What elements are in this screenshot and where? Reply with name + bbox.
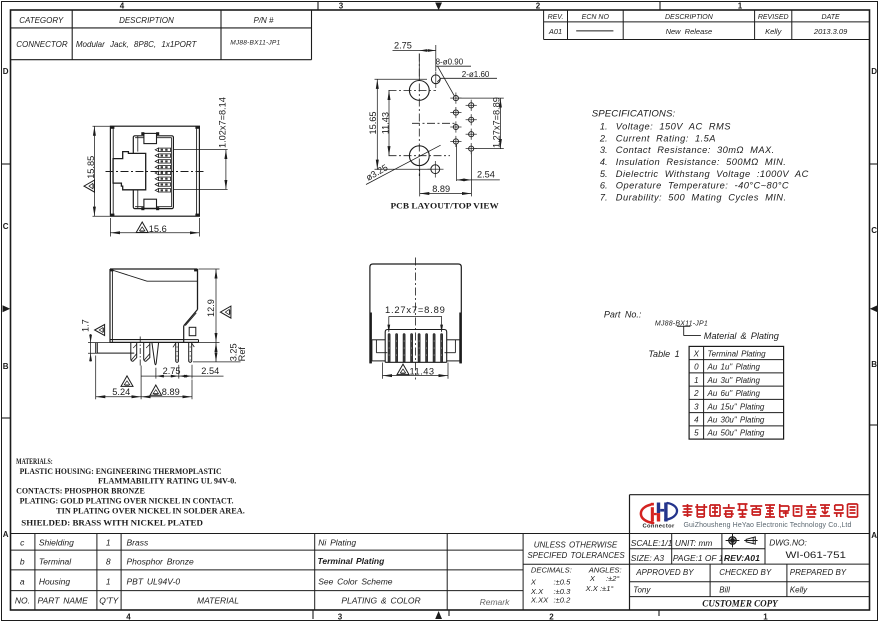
parts header row <box>15 596 421 606</box>
front view bottom polarity tab <box>141 199 159 210</box>
svg-text:0: 0 <box>694 363 699 372</box>
svg-text:Au 50u" Plating: Au 50u" Plating <box>707 429 765 438</box>
svg-text:2013.3.09: 2013.3.09 <box>813 27 848 36</box>
svg-text:2: 2 <box>536 2 541 11</box>
svg-text:1: 1 <box>763 613 768 622</box>
svg-text:2: 2 <box>549 613 554 622</box>
rear view vertical centerline <box>415 258 417 380</box>
svg-text:8-ø0.90: 8-ø0.90 <box>436 58 464 67</box>
rear view 8 terminal pins <box>388 334 443 363</box>
svg-text:Brass: Brass <box>127 538 149 548</box>
parts list table <box>11 534 630 611</box>
svg-text:See Color Scheme: See Color Scheme <box>318 577 393 587</box>
projection symbol <box>726 534 758 548</box>
svg-text:A: A <box>871 531 877 540</box>
dimension 2.75 hole offset <box>393 40 436 79</box>
front view latch profile <box>113 152 146 190</box>
svg-text:CONNECTOR: CONNECTOR <box>16 40 68 49</box>
svg-text:3.: 3. <box>600 145 608 155</box>
label 2-o1.60 leader <box>437 70 497 82</box>
rear view right wing <box>445 340 460 361</box>
svg-text:Table 1: Table 1 <box>648 349 679 359</box>
svg-text:Voltage: 150V AC RMS: Voltage: 150V AC RMS <box>616 122 731 132</box>
svg-text:5.: 5. <box>600 169 608 179</box>
dimension 1.02x7=8.14 contact pitch <box>174 97 228 189</box>
front view horizontal centerline <box>106 171 205 173</box>
svg-text:SCALE:1/1: SCALE:1/1 <box>631 538 672 548</box>
svg-text:5: 5 <box>694 429 699 438</box>
svg-text:New Release: New Release <box>666 27 713 36</box>
company logo HY mark <box>641 503 677 524</box>
svg-text:REV.: REV. <box>548 14 564 21</box>
svg-text:15.65: 15.65 <box>368 112 378 135</box>
svg-text::±0.2: :±0.2 <box>554 595 572 604</box>
pcb vertical centerline <box>418 54 420 177</box>
svg-text:DESCRIPTION: DESCRIPTION <box>665 14 714 21</box>
svg-text:Connector: Connector <box>643 524 676 530</box>
front view outer shield square <box>110 126 199 216</box>
svg-text:APPROVED BY: APPROVED BY <box>635 568 694 577</box>
svg-text:12.9: 12.9 <box>206 299 216 317</box>
category title table <box>11 10 312 60</box>
svg-text:1.7: 1.7 <box>80 319 90 332</box>
svg-text:Operature Temperature: -40°C: Operature Temperature: -40°C~80°C <box>616 181 789 191</box>
tolerance decimals <box>530 566 572 605</box>
svg-text:1.27x7=8.89: 1.27x7=8.89 <box>492 97 502 148</box>
svg-text:3: 3 <box>694 402 699 411</box>
dimension 5.24 side <box>96 356 141 400</box>
svg-text:Terminal Plating: Terminal Plating <box>318 556 386 566</box>
svg-text:4: 4 <box>120 2 125 11</box>
svg-text:Current Rating: 1.5A: Current Rating: 1.5A <box>616 133 716 143</box>
materials notes <box>16 457 245 528</box>
side view rear fin <box>184 310 199 343</box>
svg-text:X: X <box>589 574 596 583</box>
svg-text:SPECIFICATIONS:: SPECIFICATIONS: <box>592 108 676 119</box>
svg-text:D: D <box>3 67 9 76</box>
svg-text:8: 8 <box>106 556 111 566</box>
parts row b Terminal <box>20 556 385 567</box>
svg-text:2.: 2. <box>599 133 608 143</box>
svg-text:PLASTIC HOUSING: ENGINEERING: PLASTIC HOUSING: ENGINEERING THERMOPLAST… <box>20 467 222 476</box>
zone numbers top <box>120 2 743 11</box>
svg-text:Q'TY: Q'TY <box>99 596 119 606</box>
svg-text:Bill: Bill <box>719 586 730 595</box>
svg-text:PCB LAYOUT/TOP VIEW: PCB LAYOUT/TOP VIEW <box>391 201 500 210</box>
svg-text:WI-061-751: WI-061-751 <box>786 550 847 560</box>
dimension 8.89 pcb <box>420 167 472 197</box>
revision table <box>544 10 870 40</box>
side view leg centerline <box>139 337 141 367</box>
svg-text:SHIELDED: BRASS WITH NICKEL: SHIELDED: BRASS WITH NICKEL PLATED <box>21 519 203 528</box>
value ECN dash <box>576 30 613 32</box>
svg-text:Tony: Tony <box>633 586 651 595</box>
svg-text:Terminal: Terminal <box>39 556 72 566</box>
svg-text:PART NAME: PART NAME <box>38 596 89 606</box>
svg-text:8.89: 8.89 <box>162 387 180 397</box>
svg-text:2: 2 <box>693 389 699 398</box>
svg-text:4: 4 <box>126 613 131 622</box>
svg-text:4.: 4. <box>600 157 608 167</box>
side view solder pin 2 <box>189 342 195 362</box>
svg-text:3: 3 <box>338 613 343 622</box>
title block outline <box>630 495 870 610</box>
svg-text:Kelly: Kelly <box>765 27 783 36</box>
svg-text:Modular Jack, 8P8C, 1x1PORT: Modular Jack, 8P8C, 1x1PORT <box>76 40 198 49</box>
svg-text:UNIT: mm: UNIT: mm <box>675 538 713 548</box>
svg-text:REV:A01: REV:A01 <box>724 553 760 563</box>
rear view body outline <box>370 264 461 363</box>
svg-text:FLAMMABILITY RATING UL 94V-: FLAMMABILITY RATING UL 94V-0. <box>98 476 236 485</box>
svg-text:a: a <box>20 577 25 587</box>
label 8-o0.90 leader <box>436 58 471 96</box>
dimension 8.89 side <box>141 380 192 400</box>
tolerance angles <box>585 566 622 593</box>
side view shield tab <box>96 342 135 353</box>
svg-text:CATEGORY: CATEGORY <box>19 16 64 25</box>
svg-text:SPECIFED TOLERANCES: SPECIFED TOLERANCES <box>527 551 625 560</box>
table 1 rows text <box>693 349 766 437</box>
svg-text:DWG.NO:: DWG.NO: <box>769 538 807 548</box>
svg-text:TIN PLATING OVER NICKEL IN: TIN PLATING OVER NICKEL IN SOLDER AREA. <box>56 506 245 515</box>
pcb signal holes <box>450 93 477 155</box>
svg-text:REVISED: REVISED <box>758 14 789 21</box>
svg-text:Ni Plating: Ni Plating <box>318 538 356 548</box>
dimension 2.54 pcb <box>457 144 500 196</box>
zone letters left <box>3 67 9 539</box>
svg-text:D: D <box>871 67 877 76</box>
svg-text:6.: 6. <box>600 181 608 191</box>
svg-text:MATERIAL: MATERIAL <box>197 596 239 606</box>
svg-text:11.43: 11.43 <box>410 366 435 376</box>
part number leader line <box>677 326 701 335</box>
svg-text:1: 1 <box>738 2 743 11</box>
svg-text:C: C <box>3 222 9 231</box>
dimension 15.6 front width <box>110 218 199 237</box>
svg-text:CUSTOMER COPY: CUSTOMER COPY <box>702 599 778 610</box>
svg-text::±0.5: :±0.5 <box>554 577 572 586</box>
svg-text:15.6: 15.6 <box>149 224 167 234</box>
svg-text:15.85: 15.85 <box>86 156 96 179</box>
side view solder pin 1 <box>173 342 179 362</box>
svg-text:Insulation Resistance: 500MΩ: Insulation Resistance: 500MΩ MIN. <box>616 157 787 167</box>
svg-text::±2°: :±2° <box>606 574 620 583</box>
svg-text:4: 4 <box>694 416 699 425</box>
svg-text:DECIMALS:: DECIMALS: <box>531 566 572 575</box>
svg-text:Kelly: Kelly <box>790 586 808 595</box>
svg-text:2.54: 2.54 <box>201 366 219 376</box>
svg-text:PREPARED BY: PREPARED BY <box>790 568 847 577</box>
side view center peg <box>152 342 159 364</box>
dimension 12.9 side <box>199 269 231 342</box>
parts row a Housing <box>20 577 393 587</box>
dimension 1.27x7=8.89 rear <box>385 304 446 332</box>
svg-text:1: 1 <box>106 577 111 587</box>
dimension 11.43 pcb <box>380 90 390 155</box>
svg-text:A: A <box>3 530 9 539</box>
tolerance block lines <box>523 563 629 565</box>
svg-text:PBT UL94V-0: PBT UL94V-0 <box>127 577 181 587</box>
svg-text:1.02x7=8.14: 1.02x7=8.14 <box>217 97 227 148</box>
centering arrow right <box>870 305 878 312</box>
svg-text:C: C <box>871 226 877 235</box>
front view top polarity tab <box>141 132 159 143</box>
pcb mounting hole bottom <box>389 146 451 166</box>
svg-text:CONTACTS: PHOSPHOR BRONZE: CONTACTS: PHOSPHOR BRONZE <box>16 487 145 496</box>
svg-text:2-ø1.60: 2-ø1.60 <box>462 70 490 79</box>
svg-text:Dielectric Withstang Voltage: Dielectric Withstang Voltage :1000V AC <box>616 169 809 179</box>
parts row c Shielding <box>20 538 356 548</box>
dimension 15.85 front height <box>84 126 110 216</box>
dimension 2.54 side <box>179 365 224 379</box>
centering arrow left <box>3 305 11 312</box>
svg-text:CHECKED BY: CHECKED BY <box>719 568 772 577</box>
svg-text:B: B <box>871 360 877 369</box>
rear view pin housing <box>385 330 447 363</box>
svg-text:1.: 1. <box>600 122 608 132</box>
svg-text:DESCRIPTION: DESCRIPTION <box>119 16 174 25</box>
pcb middle centerline <box>412 122 456 124</box>
svg-text:B: B <box>3 362 9 371</box>
rear view left wing <box>372 340 387 361</box>
svg-text:7.: 7. <box>600 192 608 202</box>
svg-text:Contact Resistance: 30mΩ MAX: Contact Resistance: 30mΩ MAX. <box>616 145 775 155</box>
side view hook leg 2 <box>144 342 150 361</box>
svg-text:1: 1 <box>694 376 698 385</box>
svg-text:Au 30u" Plating: Au 30u" Plating <box>707 416 765 425</box>
svg-text:X: X <box>530 577 537 586</box>
dimension 1.27x7=8.89 pcb <box>459 97 504 148</box>
svg-text:Shielding: Shielding <box>39 538 74 548</box>
svg-text:A01: A01 <box>548 27 562 36</box>
dimension 3.25 Ref side <box>193 342 247 362</box>
svg-text:b: b <box>20 556 25 566</box>
svg-text:Phosphor Bronze: Phosphor Bronze <box>127 556 194 566</box>
svg-text:Durability: 500 Mating Cycl: Durability: 500 Mating Cycles MIN. <box>616 192 787 202</box>
svg-text:Ref: Ref <box>237 347 247 362</box>
svg-text:3: 3 <box>339 2 344 11</box>
svg-text:PLATING: GOLD PLATING OVER: PLATING: GOLD PLATING OVER NICKEL IN CON… <box>20 497 234 506</box>
svg-text:8.89: 8.89 <box>432 184 450 194</box>
svg-text:Au 1u" Plating: Au 1u" Plating <box>707 363 761 372</box>
svg-text:2.54: 2.54 <box>477 170 495 180</box>
svg-text:X.X :±1°: X.X :±1° <box>585 584 614 593</box>
tolerance heading <box>527 540 625 560</box>
svg-text:UNLESS OTHERWISE: UNLESS OTHERWISE <box>534 540 618 549</box>
centering arrow top <box>435 3 442 11</box>
svg-text:1: 1 <box>106 538 111 548</box>
svg-text:Part No.:: Part No.: <box>604 310 642 320</box>
specifications list <box>599 122 809 203</box>
svg-text:X: X <box>693 349 700 358</box>
side view body outline <box>110 269 199 342</box>
centering arrow bottom <box>435 611 442 619</box>
dimension 15.65 pcb <box>368 79 431 169</box>
svg-text:11.43: 11.43 <box>380 112 390 134</box>
svg-text:2.75: 2.75 <box>163 366 181 376</box>
svg-text:MATERIALS:: MATERIALS: <box>16 457 53 466</box>
front view contact pins <box>155 148 170 192</box>
front view jack opening <box>133 136 173 209</box>
svg-text:DATE: DATE <box>822 14 840 21</box>
svg-text:MJ88-BX11-JP1: MJ88-BX11-JP1 <box>230 40 280 47</box>
zone numbers bottom <box>126 613 768 622</box>
dimension 1.7 side <box>80 319 134 361</box>
svg-text:Housing: Housing <box>39 577 70 587</box>
dimension 2.75 side <box>141 366 180 379</box>
svg-text:Au 3u" Plating: Au 3u" Plating <box>707 376 761 385</box>
side view hook leg 1 <box>131 342 137 361</box>
svg-text:c: c <box>20 538 25 548</box>
svg-text:Remark: Remark <box>480 597 511 607</box>
table 1 plating table <box>689 346 784 439</box>
svg-text:ECN NO: ECN NO <box>582 14 610 21</box>
svg-text:P/N #: P/N # <box>253 16 274 25</box>
company name chinese red <box>683 504 858 517</box>
svg-text:PAGE:1 OF 1: PAGE:1 OF 1 <box>673 553 723 563</box>
svg-text:Au 6u" Plating: Au 6u" Plating <box>707 389 761 398</box>
svg-text:SIZE: A3: SIZE: A3 <box>631 553 665 563</box>
label o3.25 leader <box>364 145 440 184</box>
svg-text:X.XX: X.XX <box>530 595 549 604</box>
svg-text:Material & Plating: Material & Plating <box>704 331 780 341</box>
svg-text:GuiZhousheng HeYao Electronic: GuiZhousheng HeYao Electronic Technology… <box>684 522 852 529</box>
pcb mounting hole top <box>389 81 437 101</box>
front view corner tabs <box>110 126 199 216</box>
svg-text:5.24: 5.24 <box>112 387 130 397</box>
svg-text:NO.: NO. <box>15 596 30 606</box>
pcb shield hole bottom <box>428 161 444 178</box>
svg-text:Terminal Plating: Terminal Plating <box>708 349 767 358</box>
svg-text:2.75: 2.75 <box>394 40 412 50</box>
svg-text:1.27x7=8.89: 1.27x7=8.89 <box>385 304 446 315</box>
svg-text:PLATING & COLOR: PLATING & COLOR <box>341 596 420 606</box>
zone letters right <box>871 67 877 540</box>
dimension 11.43 rear <box>383 363 449 379</box>
svg-text:Au 15u" Plating: Au 15u" Plating <box>707 402 765 411</box>
pcb shield hole top <box>431 72 440 89</box>
